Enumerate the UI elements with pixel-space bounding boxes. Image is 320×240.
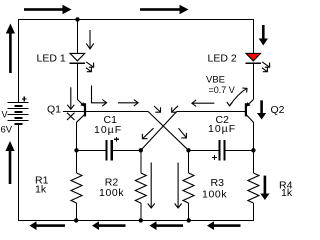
- wire node D to R4: [252, 150, 254, 173]
- thin long arrow beside R3: [175, 163, 182, 209]
- svg-text:LED 2: LED 2: [208, 53, 237, 65]
- svg-text:V: V: [2, 110, 8, 120]
- node A: [74, 148, 78, 152]
- thick arrow bottom 1 (current left): [30, 221, 66, 230]
- thick arrow bottom 3 (current left): [150, 221, 184, 230]
- thin arrow down-left at X top: [172, 106, 178, 112]
- wire R4 to bottom rail: [252, 203, 254, 221]
- wire LED2 to Q2 emitter: [252, 63, 254, 99]
- wire top rail: [18, 18, 254, 20]
- svg-text:R3: R3: [211, 177, 225, 189]
- thin arrow right toward X: [118, 100, 138, 107]
- thin arrow left from Q2 base rail: [192, 100, 214, 107]
- thin arrow LED1 light emission: [86, 62, 94, 72]
- node R1 bottom: [74, 218, 78, 222]
- battery plus sign: [22, 97, 27, 102]
- wire Q1 collector to node A: [76, 122, 78, 151]
- wire node B to R2: [140, 150, 142, 173]
- resistor R2: [135, 173, 146, 203]
- thin arrow onto Q1 base: [67, 87, 74, 109]
- svg-text:Q1: Q1: [47, 104, 61, 116]
- transistor Q2: [246, 100, 254, 123]
- node R3 bottom: [187, 218, 191, 222]
- thick arrow top-left (current right): [24, 5, 72, 14]
- capacitor C2: [219, 140, 224, 161]
- svg-text:100k: 100k: [202, 189, 227, 201]
- wire LED1 to Q1 emitter: [77, 63, 79, 99]
- wire left rail upper: [17, 19, 19, 103]
- thick arrow at R4 (current down): [260, 176, 269, 200]
- thin arrow LED2 light emission: [262, 62, 270, 72]
- node C: [186, 148, 190, 152]
- thick arrow bottom 4 (current left): [207, 221, 241, 230]
- resistor R3: [183, 173, 194, 203]
- wire Q2 base rail: [177, 110, 246, 112]
- wire left rail lower: [17, 124, 19, 221]
- node top rail / LED1: [75, 17, 79, 21]
- thick arrow left-upper (current up): [6, 24, 15, 74]
- svg-text:LED 1: LED 1: [37, 53, 66, 65]
- C2 plus sign: [212, 155, 217, 160]
- thin arrow down-left mid X: [142, 128, 153, 139]
- wire right rail top: [252, 19, 254, 54]
- thick arrow at Q2 (current down): [257, 100, 266, 119]
- svg-text:100k: 100k: [99, 187, 124, 199]
- resistor R1: [71, 173, 82, 203]
- LED 2 (red): [246, 53, 262, 63]
- thin L arrow from Q1 emitter: [92, 86, 107, 107]
- wire R3 to bottom rail: [188, 203, 190, 221]
- node R2 bottom: [139, 218, 143, 222]
- battery V 6V: [8, 103, 29, 125]
- wire C2 to node D: [226, 149, 254, 151]
- LED 1: [70, 53, 86, 63]
- svg-text:1k: 1k: [281, 187, 293, 199]
- svg-text:6V: 6V: [1, 125, 13, 136]
- wire cross-couple Q2 base to node B: [141, 111, 177, 150]
- wire LED1 branch from top rail: [77, 19, 79, 54]
- wire node A to C1: [77, 149, 106, 151]
- wire Q2 collector to node D: [252, 122, 254, 151]
- C1 plus sign: [114, 137, 119, 142]
- svg-text:=0.7 V: =0.7 V: [209, 85, 235, 95]
- node D: [251, 148, 255, 152]
- wire cross-couple Q1 base to node C: [148, 111, 189, 150]
- VBE curved arrow: [227, 88, 247, 106]
- thick arrow bottom 2 (current left): [92, 221, 126, 230]
- svg-text:1k: 1k: [35, 184, 47, 196]
- svg-text:VBE: VBE: [206, 75, 225, 86]
- wire Q1 base rail: [63, 110, 148, 112]
- wire node C to R3: [188, 150, 190, 173]
- thin long arrow beside R2: [148, 163, 155, 209]
- X mark no base current Q1: [67, 113, 75, 120]
- wire bottom rail: [18, 219, 254, 221]
- svg-text:10µF: 10µF: [94, 124, 122, 136]
- thick arrow above LED2 (current down): [259, 25, 268, 46]
- thick arrow top-right (current right): [140, 5, 189, 14]
- svg-text:10µF: 10µF: [208, 123, 236, 135]
- svg-text:Q2: Q2: [271, 104, 285, 116]
- capacitor C1: [107, 140, 112, 161]
- thin arrow down-right mid X: [179, 128, 187, 138]
- thin arrow down-right at X top: [154, 106, 161, 112]
- thick arrow left-lower (current up): [5, 141, 14, 184]
- wire C1 to node B: [113, 149, 141, 151]
- node B: [139, 148, 143, 152]
- wire R2 to bottom rail: [140, 203, 142, 221]
- wire node C to C2: [189, 149, 219, 151]
- resistor R4: [248, 173, 259, 203]
- thin arrow LED1 current down: [86, 30, 94, 49]
- wire node A to R1: [76, 150, 78, 173]
- transistor Q1: [77, 100, 86, 123]
- wire R1 to bottom rail: [76, 203, 78, 221]
